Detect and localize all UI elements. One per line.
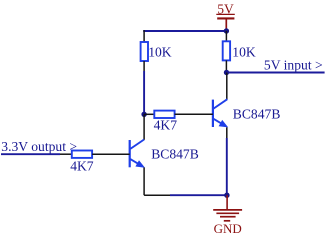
wire R2 bottom pin to node B — [225, 60, 227, 72]
wire net 5V input — [227, 72, 325, 74]
node B junction — [224, 70, 229, 75]
wire R3 to Q2 base — [175, 113, 213, 115]
wire into R4 — [60, 153, 72, 155]
wire node A to R3 — [144, 113, 154, 115]
wire R1 to node A — [143, 71, 145, 114]
node A junction — [141, 112, 146, 117]
wire Q2 emitter pin — [226, 127, 228, 138]
wire R4 to Q1 base — [92, 153, 130, 155]
resistor R1 10K — [141, 42, 172, 61]
power port 5V — [216, 1, 235, 31]
wire Q1 emitter down — [143, 168, 145, 196]
svg-text:BC847B: BC847B — [151, 147, 199, 162]
ground GND symbol — [213, 195, 242, 236]
wire top rail from R1 to 5V node — [143, 30, 226, 32]
wire pin from top corner into R1 — [143, 30, 145, 42]
transistor Q2 BC847B — [213, 99, 280, 127]
svg-text:10K: 10K — [232, 44, 256, 59]
wire ground rail left part — [144, 194, 170, 196]
transistor Q1 BC847B — [130, 140, 199, 168]
wire pin from 5V node into R2 — [225, 31, 227, 42]
wire Q2 emitter down to ground rail — [226, 138, 228, 195]
wire R1 bottom pin — [143, 61, 145, 71]
svg-text:5V input >: 5V input > — [264, 58, 323, 73]
wire node A down to Q1 collector — [143, 114, 145, 140]
wire net 3.3V output — [1, 153, 60, 155]
node GND junction — [224, 193, 229, 198]
resistor R3 4K7 — [154, 111, 178, 133]
svg-text:BC847B: BC847B — [233, 106, 281, 121]
wire ground rail — [170, 194, 227, 196]
svg-text:GND: GND — [214, 221, 242, 236]
node 5V junction — [224, 28, 229, 33]
resistor R4 4K7 — [70, 151, 94, 174]
svg-text:4K7: 4K7 — [154, 117, 178, 132]
wire node B to Q2 collector — [226, 73, 228, 100]
svg-text:3.3V output >: 3.3V output > — [1, 139, 77, 154]
svg-text:4K7: 4K7 — [70, 159, 94, 174]
resistor R2 10K — [223, 41, 256, 60]
svg-text:10K: 10K — [148, 44, 172, 59]
